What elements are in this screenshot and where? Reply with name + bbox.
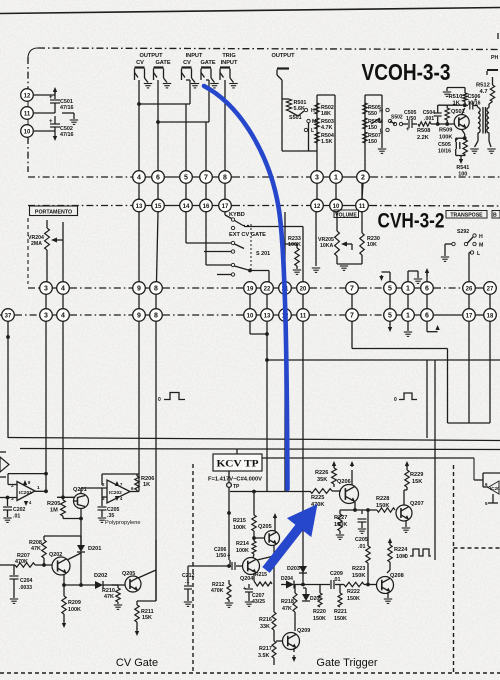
svg-text:6: 6: [425, 285, 429, 292]
svg-text:IC203: IC203: [490, 486, 500, 491]
svg-text:S502: S502: [391, 115, 403, 121]
svg-text:R508: R508: [417, 128, 430, 134]
svg-text:1: 1: [37, 485, 40, 491]
svg-text:11: 11: [300, 313, 307, 319]
svg-text:35K: 35K: [317, 477, 327, 483]
svg-text:13: 13: [264, 313, 271, 319]
svg-text:18K: 18K: [321, 111, 331, 117]
svg-text:1.5K: 1.5K: [321, 139, 332, 145]
svg-text:+: +: [49, 119, 53, 125]
svg-text:17: 17: [222, 204, 229, 210]
svg-text:GATE: GATE: [155, 60, 170, 66]
svg-text:1: 1: [406, 285, 410, 292]
svg-text:33K: 33K: [260, 624, 270, 630]
svg-text:D205: D205: [310, 596, 322, 602]
svg-text:12: 12: [24, 93, 31, 99]
svg-text:5: 5: [388, 285, 392, 292]
svg-text:150K: 150K: [376, 503, 389, 509]
svg-text:S 201: S 201: [256, 251, 270, 257]
svg-text:150K: 150K: [352, 573, 365, 579]
svg-text:EXT CV GATE: EXT CV GATE: [229, 232, 266, 238]
svg-text:Q208: Q208: [390, 573, 404, 579]
svg-text:16: 16: [203, 204, 210, 210]
svg-text:VCOH-3-3: VCOH-3-3: [362, 59, 451, 85]
svg-text:R222: R222: [347, 589, 360, 595]
svg-text:18: 18: [487, 313, 494, 319]
svg-text:150K: 150K: [347, 596, 360, 602]
svg-text:+: +: [227, 553, 230, 559]
svg-text:7: 7: [350, 312, 354, 319]
svg-text:.01: .01: [13, 514, 20, 520]
svg-text:150: 150: [368, 139, 377, 145]
svg-text:100K: 100K: [288, 242, 301, 248]
svg-text:R224: R224: [394, 547, 408, 553]
svg-text:100K: 100K: [233, 525, 246, 531]
svg-text:1: 1: [406, 312, 410, 319]
svg-text:TRANSPOSE: TRANSPOSE: [450, 213, 483, 219]
svg-text:6: 6: [425, 312, 429, 319]
svg-text:15K: 15K: [142, 615, 152, 621]
svg-text:Q209: Q209: [297, 628, 310, 634]
svg-text:OUTPUT: OUTPUT: [272, 53, 296, 59]
svg-text:6: 6: [156, 174, 160, 181]
svg-text:8: 8: [154, 312, 158, 319]
svg-text:+: +: [455, 137, 458, 143]
svg-text:10K: 10K: [367, 242, 377, 248]
svg-text:150K: 150K: [313, 616, 326, 622]
svg-text:VOLUME: VOLUME: [335, 212, 357, 218]
svg-text:1K: 1K: [453, 101, 461, 107]
svg-text:.35: .35: [107, 513, 114, 519]
svg-text:11: 11: [24, 111, 31, 117]
svg-text:C202: C202: [13, 507, 26, 513]
svg-text:GATE: GATE: [200, 60, 215, 66]
svg-text:1: 1: [334, 174, 338, 181]
svg-text:R216: R216: [259, 617, 272, 623]
svg-text:Q207: Q207: [410, 501, 424, 507]
svg-text:R215: R215: [233, 518, 246, 524]
svg-text:47K: 47K: [31, 546, 41, 552]
svg-text:22: 22: [264, 286, 271, 292]
svg-text:CV Gate: CV Gate: [116, 657, 158, 669]
svg-text:R225: R225: [311, 495, 324, 501]
svg-text:IC201: IC201: [19, 490, 32, 496]
svg-text:550: 550: [368, 111, 377, 117]
svg-text:3.5K: 3.5K: [258, 653, 269, 659]
svg-text:11: 11: [359, 204, 366, 210]
svg-text:3: 3: [44, 285, 48, 292]
svg-text:R209: R209: [68, 600, 81, 606]
svg-text:CV: CV: [183, 60, 191, 66]
svg-text:150K: 150K: [334, 616, 347, 622]
svg-text:1M: 1M: [50, 508, 58, 514]
svg-text:R229: R229: [410, 472, 423, 478]
svg-text:+: +: [406, 127, 410, 133]
svg-text:47K: 47K: [104, 594, 114, 600]
svg-text:R218: R218: [281, 599, 294, 605]
svg-text:26: 26: [466, 286, 473, 292]
svg-text:M: M: [379, 119, 383, 125]
svg-text:4: 4: [61, 285, 65, 292]
svg-text:4: 4: [61, 312, 65, 319]
svg-text:7: 7: [350, 285, 354, 292]
svg-text:OUTPUT: OUTPUT: [140, 53, 164, 59]
svg-text:17: 17: [466, 313, 473, 319]
svg-text:S501: S501: [289, 115, 302, 121]
svg-text:R221: R221: [334, 609, 347, 615]
svg-text:43/25: 43/25: [252, 599, 265, 605]
svg-text:R220: R220: [313, 609, 326, 615]
svg-text:15: 15: [155, 204, 162, 210]
svg-text:Polypropylene: Polypropylene: [105, 520, 140, 526]
svg-text:9: 9: [137, 285, 141, 292]
svg-text:8: 8: [154, 285, 158, 292]
svg-text:R228: R228: [376, 496, 389, 502]
svg-text:.01: .01: [358, 544, 366, 550]
svg-text:10KA: 10KA: [320, 243, 334, 249]
svg-text:3: 3: [44, 312, 48, 319]
svg-text:INPUT: INPUT: [221, 60, 238, 66]
svg-text:0: 0: [394, 397, 397, 403]
svg-text:2MA: 2MA: [31, 241, 42, 247]
svg-text:8: 8: [223, 174, 227, 181]
svg-text:1/50: 1/50: [216, 553, 226, 559]
svg-text:R512: R512: [476, 83, 490, 89]
svg-text:9: 9: [137, 312, 141, 319]
svg-text:0: 0: [405, 554, 408, 560]
svg-text:12: 12: [314, 204, 321, 210]
svg-text:15K: 15K: [412, 479, 422, 485]
svg-text:19: 19: [247, 286, 254, 292]
svg-text:TRIG: TRIG: [222, 53, 235, 59]
svg-text:27: 27: [487, 286, 494, 292]
svg-text:1/50: 1/50: [406, 116, 416, 122]
svg-text:R217: R217: [259, 646, 272, 652]
svg-text:F=1.417V~C#4.000V: F=1.417V~C#4.000V: [208, 477, 263, 483]
svg-text:.0033: .0033: [19, 585, 32, 591]
svg-text:Q204: Q204: [240, 576, 253, 582]
svg-text:4: 4: [137, 174, 141, 181]
svg-text:37: 37: [5, 313, 12, 319]
svg-text:PORTAMENTO: PORTAMENTO: [35, 209, 72, 215]
svg-text:100K: 100K: [68, 607, 81, 613]
svg-text:H: H: [379, 109, 383, 115]
svg-text:INPUT: INPUT: [186, 53, 203, 59]
svg-text:R205: R205: [47, 501, 60, 507]
svg-text:14: 14: [183, 204, 190, 210]
svg-text:TP: TP: [233, 484, 240, 490]
svg-text:+: +: [243, 586, 246, 592]
svg-text:PH: PH: [491, 55, 498, 61]
svg-text:3: 3: [315, 174, 319, 181]
svg-text:C205: C205: [355, 537, 368, 543]
svg-text:R510: R510: [449, 94, 463, 100]
svg-text:13: 13: [136, 204, 143, 210]
svg-text:KYBD: KYBD: [229, 212, 245, 218]
svg-text:2.2K: 2.2K: [417, 135, 429, 141]
svg-text:B: B: [493, 213, 497, 219]
svg-text:CV: CV: [136, 60, 144, 66]
svg-text:.01: .01: [333, 577, 341, 583]
svg-text:10: 10: [247, 313, 254, 319]
svg-text:D204: D204: [281, 576, 293, 582]
svg-text:150K: 150K: [334, 522, 347, 528]
svg-text:C505: C505: [438, 142, 451, 148]
svg-text:M: M: [479, 243, 483, 249]
svg-text:10/16: 10/16: [438, 149, 451, 155]
svg-text:5: 5: [388, 312, 392, 319]
svg-text:4.7: 4.7: [480, 89, 488, 95]
svg-text:KCV TP: KCV TP: [217, 460, 259, 470]
svg-text:100K: 100K: [439, 135, 452, 141]
svg-text:.001: .001: [424, 116, 434, 122]
svg-text:.1: .1: [185, 579, 189, 585]
svg-text:20: 20: [300, 286, 307, 292]
svg-text:+: +: [474, 97, 477, 103]
svg-text:4.7K: 4.7K: [321, 125, 332, 131]
svg-text:150: 150: [368, 125, 377, 131]
svg-text:470K: 470K: [211, 588, 224, 594]
svg-text:R223: R223: [352, 566, 365, 572]
svg-text:R227: R227: [334, 515, 347, 521]
svg-text:R226: R226: [315, 470, 328, 476]
svg-text:Q205: Q205: [258, 524, 272, 530]
svg-text:10: 10: [24, 129, 31, 135]
svg-text:7: 7: [204, 174, 208, 181]
svg-text:R541: R541: [456, 165, 469, 171]
svg-text:S292: S292: [457, 229, 469, 235]
svg-text:5: 5: [184, 174, 188, 181]
svg-text:47K: 47K: [282, 606, 292, 612]
svg-text:47/16: 47/16: [60, 105, 74, 111]
svg-text:D203: D203: [287, 566, 300, 572]
svg-text:0: 0: [158, 397, 161, 403]
svg-text:C204: C204: [20, 578, 33, 584]
svg-text:CVH-3-2: CVH-3-2: [378, 210, 445, 233]
svg-text:Gate Trigger: Gate Trigger: [316, 657, 377, 669]
svg-text:D202: D202: [94, 573, 107, 579]
svg-text:47/16: 47/16: [60, 132, 74, 138]
svg-text:R509: R509: [439, 128, 452, 134]
svg-text:10: 10: [333, 204, 340, 210]
svg-text:2: 2: [361, 174, 365, 181]
svg-text:1K: 1K: [143, 482, 150, 488]
svg-text:100K: 100K: [236, 548, 249, 554]
svg-text:R214: R214: [236, 541, 249, 547]
svg-text:H: H: [479, 234, 483, 240]
svg-text:R215: R215: [255, 572, 267, 578]
svg-text:D201: D201: [88, 546, 101, 552]
svg-text:470K: 470K: [15, 559, 28, 565]
svg-text:+: +: [49, 95, 53, 101]
